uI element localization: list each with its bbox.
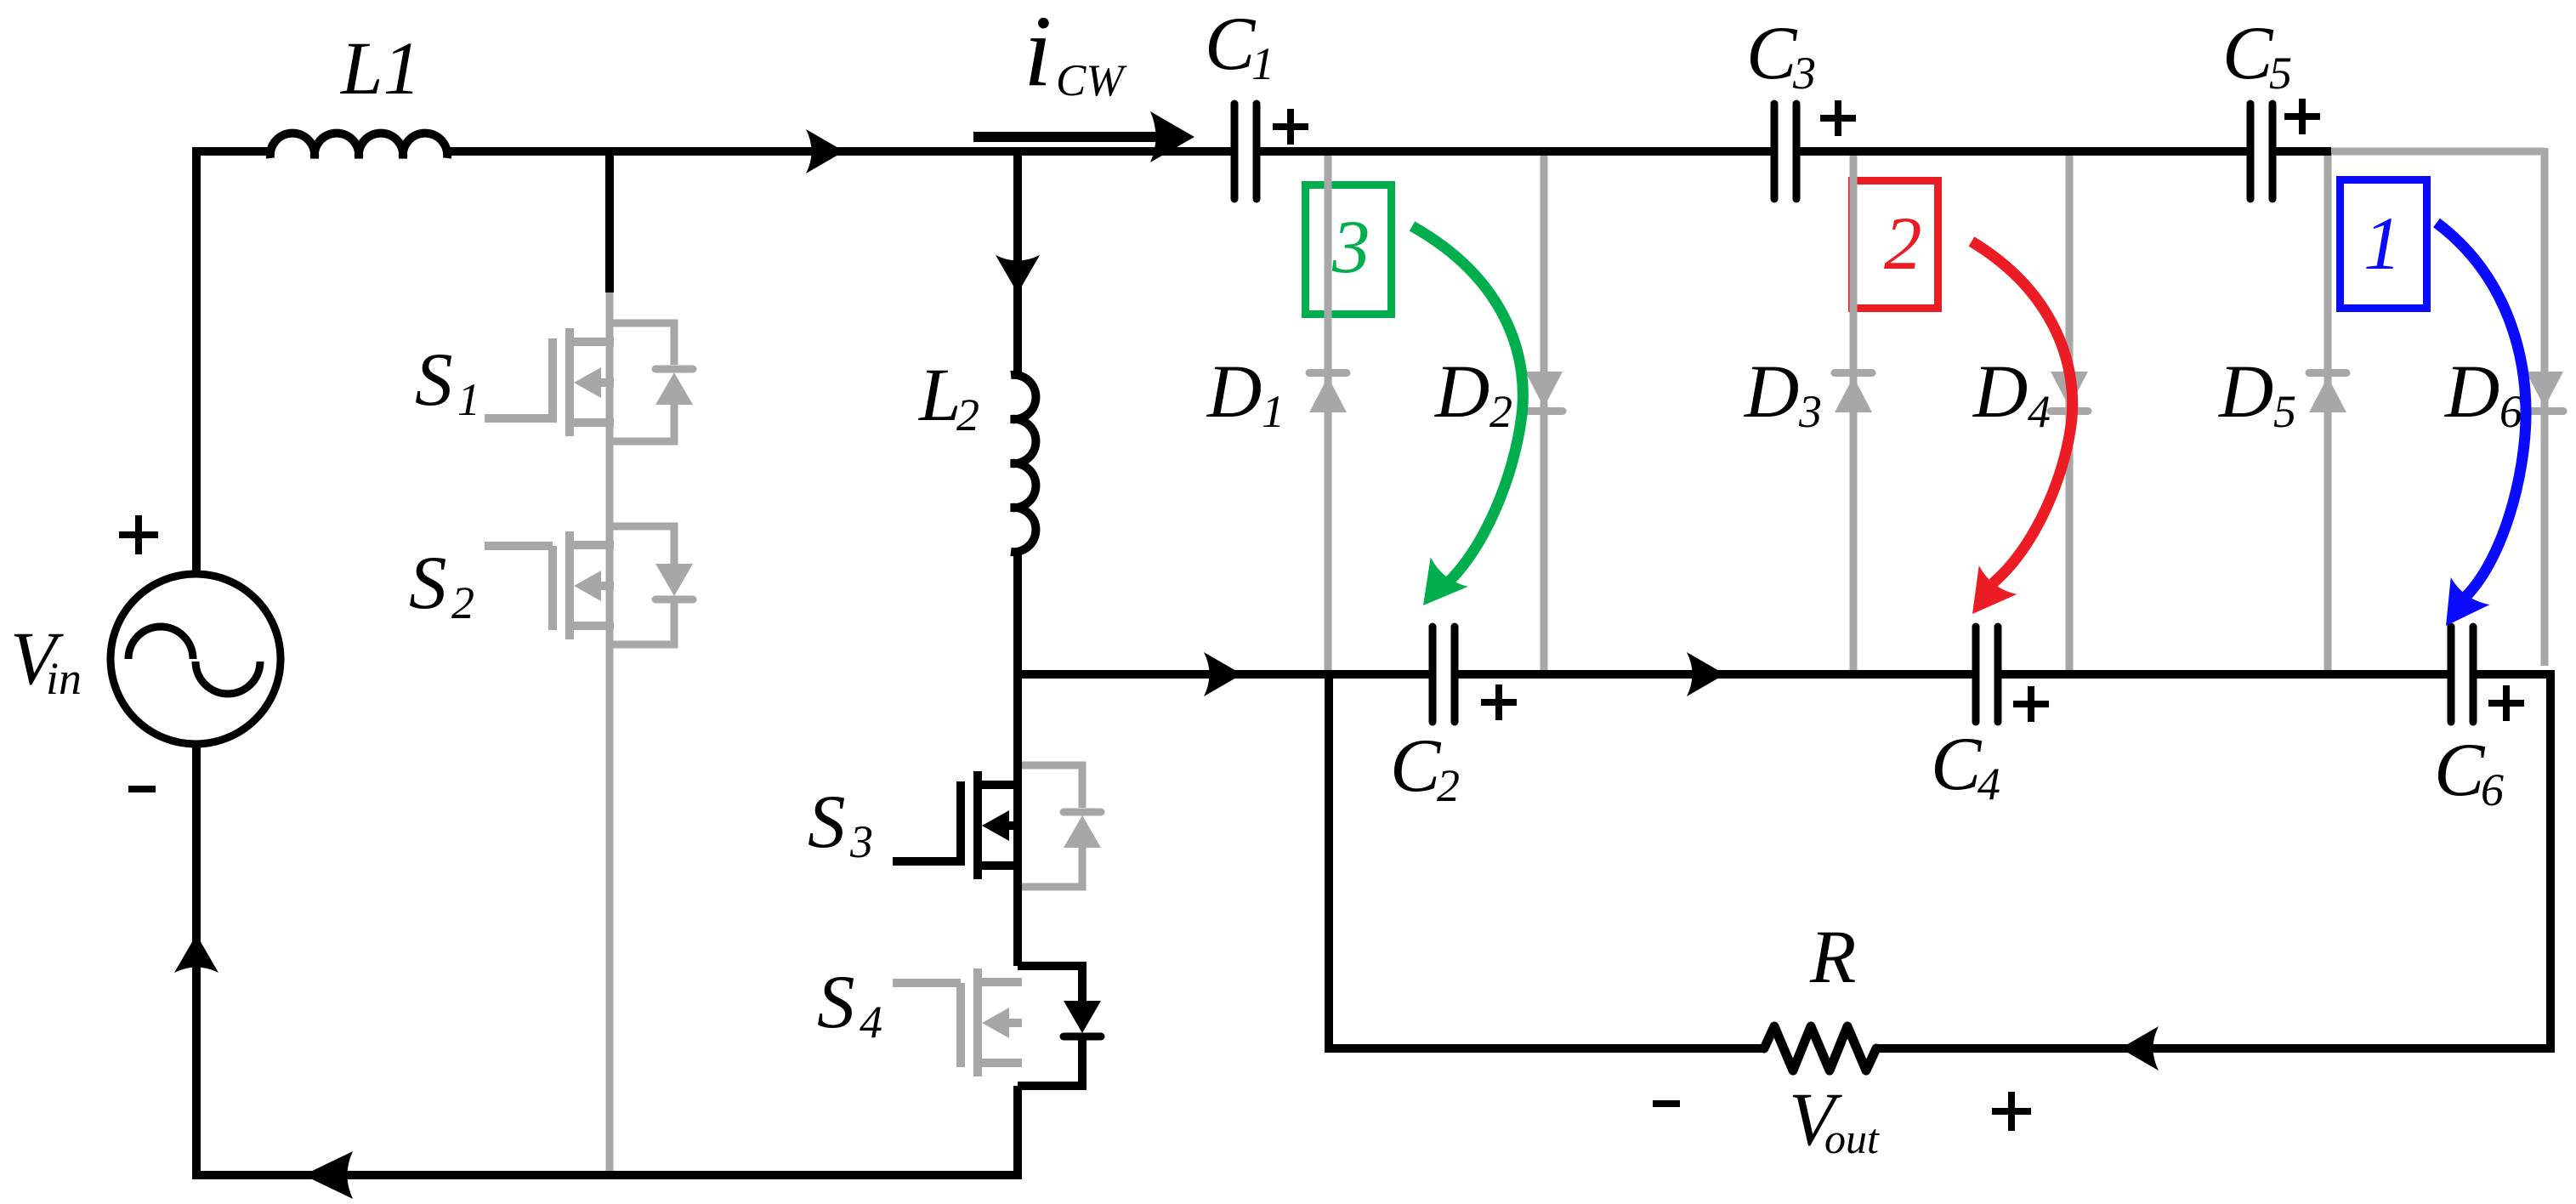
- Vin sine symbol: [128, 627, 260, 694]
- arrow left on output rail: [2120, 1026, 2159, 1071]
- wire D3 branch: [1850, 151, 1858, 671]
- interval box 3 (green): [1306, 185, 1392, 315]
- minus sign at Vin: [128, 786, 156, 792]
- freewheeling diode of S4 (black): [1018, 966, 1101, 1086]
- inductor L1: [270, 133, 447, 158]
- plus sign at C4: [2013, 686, 2049, 722]
- wire L2 branch top: [1013, 147, 1022, 375]
- transistor S1: [485, 328, 614, 436]
- diode D5: [2309, 373, 2346, 413]
- svg-text:3: 3: [1792, 48, 1816, 99]
- svg-text:5: 5: [2269, 48, 2292, 99]
- svg-text:R: R: [1809, 916, 1856, 999]
- body diode of S2: [610, 526, 693, 645]
- label D2: [1434, 350, 1512, 437]
- minus sign at Vout: [1653, 1100, 1680, 1107]
- svg-text:L: L: [917, 354, 962, 437]
- capacitor C6: [2451, 627, 2473, 722]
- label C5: [2222, 12, 2292, 99]
- svg-text:2: 2: [451, 577, 474, 628]
- arrow up on source branch: [174, 934, 218, 973]
- label C6: [2434, 729, 2504, 815]
- wire S3 channel vertical: [1013, 781, 1022, 870]
- svg-text:D: D: [1744, 350, 1799, 434]
- wire output bottom left: [1325, 1044, 1764, 1053]
- label D5: [2218, 350, 2296, 437]
- wire output bottom right: [1876, 1044, 2555, 1053]
- wire half-bridge gray vertical: [606, 291, 614, 1175]
- svg-text:C: C: [2222, 12, 2274, 95]
- svg-text:2: 2: [1437, 760, 1460, 811]
- wire output left vertical: [1325, 670, 1333, 1048]
- svg-text:in: in: [46, 653, 82, 704]
- wire D5 branch: [2324, 151, 2332, 671]
- svg-text:4: 4: [1977, 758, 2000, 809]
- svg-text:D: D: [1434, 350, 1489, 434]
- wire top rail mid: [445, 147, 1231, 156]
- svg-text:4: 4: [2028, 386, 2051, 437]
- diode D1: [1309, 373, 1347, 413]
- voltage source Vin circle: [111, 574, 281, 744]
- svg-text:CW: CW: [1056, 56, 1127, 105]
- svg-text:C: C: [1205, 3, 1257, 86]
- discharge path arrow 1 (blue): [2426, 223, 2526, 639]
- wire mid rail to right corner: [2477, 674, 2551, 1048]
- diode D6: [2526, 372, 2563, 412]
- arrow down on L2 branch: [996, 255, 1040, 293]
- diode D3: [1835, 373, 1872, 413]
- label L2: [917, 354, 979, 440]
- interval label 3: [1331, 206, 1370, 289]
- diode D2: [1525, 372, 1563, 412]
- svg-text:S: S: [409, 542, 447, 625]
- svg-text:C: C: [2434, 729, 2486, 812]
- svg-text:6: 6: [2499, 386, 2522, 437]
- wire top rail left: [192, 147, 274, 156]
- arrow left on bottom rail: [304, 1151, 353, 1199]
- label Vin: [10, 617, 82, 704]
- label S1: [415, 338, 480, 425]
- svg-text:6: 6: [2481, 764, 2504, 815]
- wire S3 to S4: [1013, 866, 1022, 966]
- wire D1 branch: [1325, 151, 1332, 671]
- svg-text:2: 2: [1884, 202, 1922, 286]
- wire L2 to S3: [1013, 552, 1022, 785]
- svg-text:3: 3: [849, 816, 873, 867]
- inductor L2: [1011, 375, 1036, 552]
- svg-text:3: 3: [1798, 386, 1822, 437]
- svg-text:3: 3: [1331, 206, 1370, 289]
- label i_CW: [1024, 0, 1127, 107]
- svg-text:S: S: [415, 338, 453, 422]
- svg-text:C: C: [1746, 12, 1798, 95]
- discharge path arrow 3 (green): [1404, 226, 1523, 620]
- plus sign at C2: [1481, 684, 1517, 720]
- label S3: [808, 781, 873, 867]
- svg-text:i: i: [1024, 0, 1052, 107]
- interval label 1: [2363, 202, 2402, 286]
- svg-text:1: 1: [1262, 386, 1285, 437]
- interval box 2 (red): [1853, 181, 1938, 309]
- label L1: [339, 27, 421, 111]
- svg-text:4: 4: [860, 997, 882, 1048]
- label C4: [1931, 723, 2000, 809]
- body diode of S1: [610, 323, 693, 441]
- svg-text:D: D: [1206, 350, 1262, 434]
- wire D6 branch: [2541, 148, 2549, 666]
- label S4: [817, 961, 882, 1048]
- plus sign at C6: [2488, 685, 2524, 721]
- capacitor C2: [1433, 627, 1455, 722]
- wire top rail C3-C5: [1801, 147, 2247, 156]
- svg-text:5: 5: [2273, 386, 2296, 437]
- capacitor C3: [1774, 104, 1796, 199]
- wire mid rail C4-C6: [2002, 670, 2448, 679]
- wire gray top rail: [2329, 148, 2545, 156]
- capacitor C4: [1976, 627, 1998, 722]
- transistor S4 (gray channel): [893, 968, 1022, 1076]
- svg-text:C: C: [1931, 723, 1983, 806]
- svg-text:1: 1: [457, 374, 480, 425]
- wire bottom rail: [192, 1171, 1022, 1179]
- svg-text:S: S: [808, 781, 846, 864]
- label R: [1809, 916, 1856, 999]
- svg-text:D: D: [2444, 350, 2499, 434]
- arrow i_CW: [973, 111, 1194, 162]
- label D3: [1744, 350, 1822, 437]
- svg-text:1: 1: [1251, 38, 1274, 89]
- interval box 1 (blue): [2341, 180, 2427, 309]
- wire half-bridge stub: [605, 147, 614, 292]
- wire mid rail left: [1013, 670, 1429, 679]
- label D4: [1972, 350, 2051, 437]
- wire mid rail C2-C4: [1459, 670, 1972, 679]
- svg-text:C: C: [1390, 724, 1442, 808]
- label C1: [1205, 3, 1274, 89]
- svg-text:out: out: [1824, 1115, 1880, 1162]
- plus sign at C5: [2284, 99, 2320, 134]
- resistor R: [1764, 1026, 1876, 1071]
- wire source top: [192, 147, 201, 574]
- arrow right on mid rail 1: [1204, 652, 1242, 696]
- arrow right on top rail: [806, 129, 844, 173]
- plus sign at Vin: [119, 515, 158, 554]
- body diode of S3: [1018, 765, 1101, 887]
- discharge path arrow 2 (red): [1954, 241, 2073, 628]
- label D6: [2444, 350, 2522, 437]
- label D1: [1206, 350, 1285, 437]
- label C2: [1390, 724, 1460, 811]
- label S2: [409, 542, 474, 628]
- wire S4 to bottom rail: [1013, 1086, 1022, 1179]
- svg-text:D: D: [1972, 350, 2028, 434]
- svg-text:D: D: [2218, 350, 2273, 434]
- wire top rail C1-C3: [1261, 147, 1771, 156]
- interval label 2: [1884, 202, 1922, 286]
- wire source bottom: [192, 744, 201, 1179]
- plus sign at Vout: [1992, 1092, 2031, 1131]
- label Vout: [1789, 1078, 1880, 1162]
- svg-text:S: S: [817, 961, 855, 1044]
- wire D4 branch: [2066, 151, 2074, 671]
- svg-text:2: 2: [1489, 386, 1512, 437]
- arrow right on mid rail 2: [1687, 652, 1725, 696]
- svg-text:1: 1: [2363, 202, 2402, 286]
- svg-text:2: 2: [956, 389, 979, 440]
- plus sign at C1: [1273, 109, 1308, 145]
- transistor S3 (black): [893, 771, 1022, 879]
- wire top rail after C5: [2277, 147, 2332, 156]
- transistor S2: [485, 531, 614, 639]
- svg-text:L1: L1: [339, 27, 421, 111]
- capacitor C5: [2250, 104, 2272, 199]
- diode D4: [2051, 372, 2088, 412]
- wire D2 branch: [1540, 151, 1548, 671]
- label C3: [1746, 12, 1816, 99]
- capacitor C1: [1234, 104, 1257, 199]
- plus sign at C3: [1820, 100, 1856, 136]
